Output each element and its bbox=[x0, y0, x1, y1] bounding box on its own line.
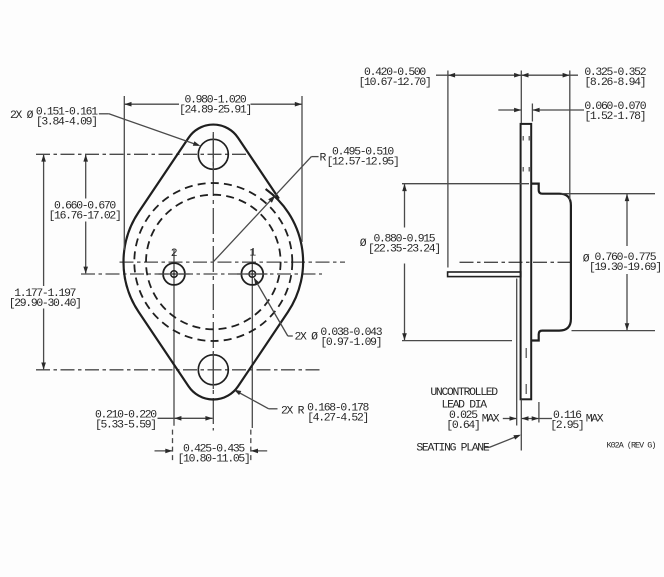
flange radius leader bbox=[214, 157, 319, 262]
can dia text bbox=[583, 252, 661, 274]
pin 2 vertical centerline bbox=[173, 250, 175, 426]
svg-text:[1.52-1.78]: [1.52-1.78] bbox=[584, 111, 645, 123]
lead length extension line bbox=[447, 71, 449, 268]
can dia extension lines bbox=[562, 194, 656, 331]
lead dia leader bbox=[254, 278, 293, 336]
pin spacing dim arrows bbox=[155, 449, 268, 454]
bottom hole vertical crosshair bbox=[212, 351, 214, 389]
hidden circle - flange boss dia bbox=[134, 183, 292, 341]
svg-text:[10.80-11.05]: [10.80-11.05] bbox=[178, 453, 250, 465]
boss dia extension lines bbox=[402, 184, 529, 341]
mounting hole dia leader bbox=[99, 114, 200, 146]
mounting hole dia text bbox=[10, 106, 98, 128]
side view horizontal centerline bbox=[460, 261, 574, 263]
pin 2 label bbox=[171, 248, 178, 260]
seat depth text bbox=[550, 410, 604, 432]
lead length dim line bbox=[436, 73, 521, 78]
TO-3 flange outline (front view) bbox=[123, 125, 303, 400]
pin spacing dim text bbox=[178, 443, 250, 465]
top mounting hole bbox=[198, 139, 228, 169]
centerline through top mounting hole bbox=[36, 153, 247, 155]
svg-text:[0.64]: [0.64] bbox=[446, 420, 479, 432]
boss dia dim line bbox=[402, 184, 407, 341]
svg-text:[4.27-4.52]: [4.27-4.52] bbox=[307, 413, 368, 425]
svg-text:[19.30-19.69]: [19.30-19.69] bbox=[589, 262, 661, 274]
lobe radius text bbox=[281, 403, 370, 425]
center-to-pin dim line bbox=[158, 416, 213, 421]
can right extension line bbox=[569, 71, 571, 201]
svg-text:SEATING PLANE: SEATING PLANE bbox=[416, 442, 489, 454]
svg-text:K02A (REV G): K02A (REV G) bbox=[607, 440, 656, 450]
svg-text:[24.89-25.91]: [24.89-25.91] bbox=[179, 105, 251, 117]
hole-to-hole dim line bbox=[41, 154, 46, 369]
lead length text bbox=[359, 67, 431, 89]
svg-text:[0.97-1.09]: [0.97-1.09] bbox=[320, 337, 381, 349]
seating plane line bbox=[520, 400, 522, 451]
width dim line bbox=[124, 102, 302, 107]
hidden circle - can dia bbox=[146, 195, 281, 330]
flange radius text bbox=[320, 146, 399, 168]
svg-text:2X Ø: 2X Ø bbox=[10, 110, 34, 122]
hole-to-pin dim line bbox=[83, 154, 88, 273]
svg-text:MAX: MAX bbox=[586, 413, 604, 425]
seating-to-can dim line bbox=[521, 73, 578, 78]
pin 2 horizontal crosshair bbox=[159, 273, 190, 275]
can and boss profile (side view) bbox=[531, 184, 571, 341]
pin 1 (lead circle) bbox=[241, 263, 263, 285]
svg-text:[3.84-4.09]: [3.84-4.09] bbox=[36, 116, 97, 128]
drawing number bbox=[607, 440, 656, 450]
svg-text:[16.76-17.02]: [16.76-17.02] bbox=[49, 211, 121, 223]
svg-text:UNCONTROLLED: UNCONTROLLED bbox=[430, 387, 498, 399]
lobe radius leader bbox=[234, 390, 278, 409]
hole-to-hole dim text bbox=[9, 288, 81, 310]
pin 1 vertical centerline bbox=[251, 249, 253, 428]
uncontrolled lead dia arrow bbox=[503, 416, 517, 421]
width dim extension lines bbox=[124, 96, 302, 250]
width dim text 0.980-1.020 bbox=[179, 95, 251, 117]
svg-text:2X R: 2X R bbox=[281, 406, 305, 418]
lead dia text bbox=[295, 327, 383, 349]
centerline through leads (pin line) bbox=[81, 273, 322, 275]
svg-text:[12.57-12.95]: [12.57-12.95] bbox=[327, 156, 399, 168]
centerline through bottom mounting hole bbox=[36, 369, 320, 371]
seating plane upper extension line bbox=[520, 71, 522, 124]
svg-text:MAX: MAX bbox=[482, 413, 500, 425]
pin 1 label bbox=[249, 248, 256, 260]
svg-text:[8.26-8.94]: [8.26-8.94] bbox=[584, 77, 645, 89]
uncontrolled lead dia text bbox=[430, 387, 499, 432]
pin 2 (lead circle) bbox=[163, 263, 185, 285]
bottom mounting hole bbox=[198, 355, 228, 385]
svg-text:2X Ø: 2X Ø bbox=[295, 331, 319, 343]
lead (side view) bbox=[448, 272, 521, 277]
seating plane text bbox=[416, 442, 489, 454]
flange thickness dim arrows bbox=[498, 108, 584, 113]
svg-text:[2.95]: [2.95] bbox=[550, 420, 583, 432]
flange thickness text bbox=[584, 101, 646, 123]
hole-to-pin dim text bbox=[49, 201, 121, 223]
horizontal centerline through package center (front view) bbox=[120, 261, 346, 263]
pin spacing extension lines bbox=[173, 430, 251, 463]
svg-text:[29.90-30.40]: [29.90-30.40] bbox=[9, 298, 81, 310]
boss dia text bbox=[360, 233, 440, 255]
pin 1 horizontal crosshair bbox=[237, 273, 268, 275]
seating plane leader bbox=[485, 435, 521, 448]
boss extension line lower bbox=[538, 402, 540, 423]
uncontrolled lead dia extension line bbox=[516, 279, 518, 426]
svg-text:[10.67-12.70]: [10.67-12.70] bbox=[359, 77, 431, 89]
can dia dim line bbox=[625, 194, 630, 331]
vertical centerline of front view bbox=[212, 132, 214, 431]
center-to-pin dim text bbox=[95, 410, 157, 432]
seating-to-can text bbox=[584, 67, 646, 89]
top hole vertical crosshair bbox=[212, 135, 214, 182]
hidden lines in flange bbox=[523, 136, 529, 396]
svg-text:[22.35-23.24]: [22.35-23.24] bbox=[368, 243, 440, 255]
svg-text:[5.33-5.59]: [5.33-5.59] bbox=[95, 420, 156, 432]
seat depth dim line bbox=[521, 416, 552, 421]
flange plate (side view) bbox=[521, 124, 532, 399]
flange thickness extension line bbox=[531, 104, 533, 122]
